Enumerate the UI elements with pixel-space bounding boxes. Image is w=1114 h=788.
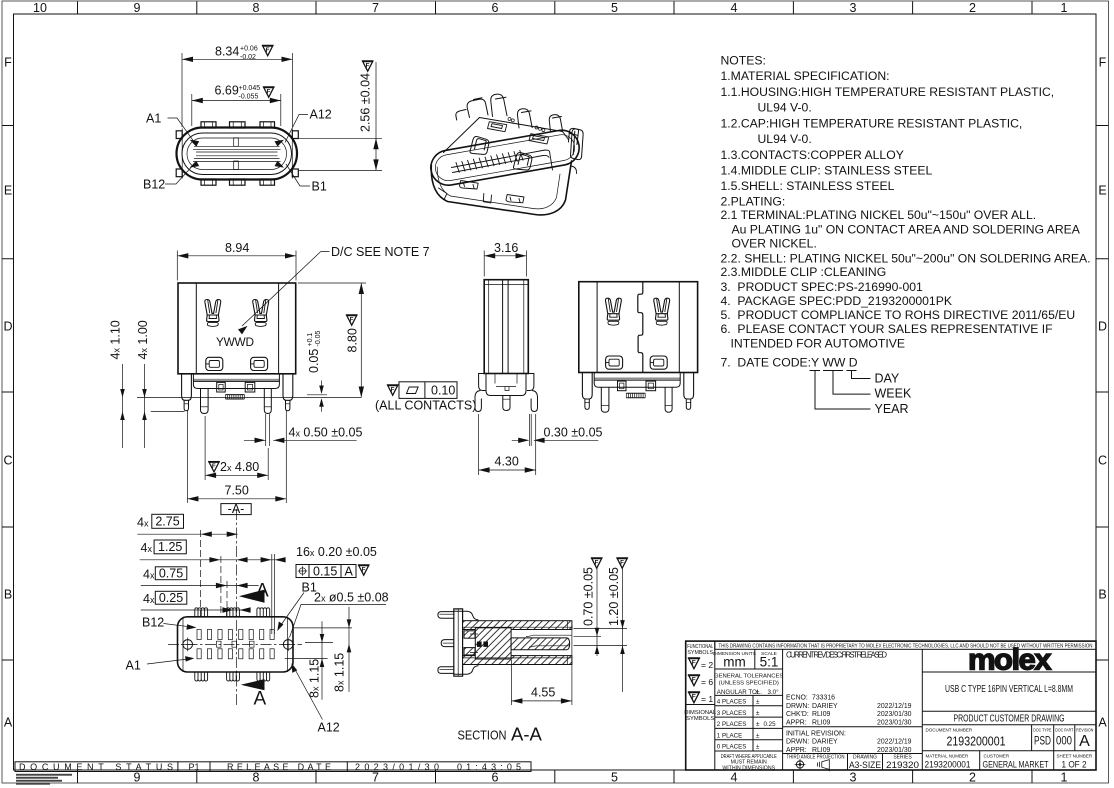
svg-text:7: 7	[372, 1, 379, 15]
svg-text:D: D	[3, 320, 12, 334]
svg-text:A-A: A-A	[511, 724, 543, 745]
section clip hatched bits	[464, 631, 475, 638]
svg-text:1.1.HOUSING:HIGH TEMPERATURE R: 1.1.HOUSING:HIGH TEMPERATURE RESISTANT P…	[721, 85, 1055, 99]
svg-text:4.55: 4.55	[531, 685, 555, 699]
svg-text:5: 5	[611, 1, 618, 15]
svg-text:8: 8	[253, 1, 260, 15]
svg-text:733316: 733316	[812, 695, 835, 702]
dim 7.50	[187, 410, 286, 503]
latch claw right	[253, 300, 269, 327]
svg-text:5:1: 5:1	[760, 655, 779, 670]
iso right side bump	[571, 166, 577, 174]
svg-text:5. PRODUCT COMPLIANCE TO ROHS: 5. PRODUCT COMPLIANCE TO ROHS DIRECTIVE …	[721, 308, 1076, 322]
rear solder legs	[582, 373, 693, 413]
svg-text:8x 1.15: 8x 1.15	[308, 659, 322, 698]
grid letters right	[1098, 56, 1107, 730]
solder legs	[182, 374, 293, 414]
svg-text:WITHIN DIMENSIONS: WITHIN DIMENSIONS	[722, 765, 775, 771]
svg-text:3. PRODUCT SPEC:PS-216990-001: 3. PRODUCT SPEC:PS-216990-001	[721, 280, 924, 294]
section top wall hatched	[463, 621, 572, 630]
svg-text:2.75: 2.75	[155, 514, 179, 528]
dim 8.94	[177, 251, 296, 281]
svg-text:1 OF 2: 1 OF 2	[1062, 759, 1087, 770]
svg-text:8.94: 8.94	[225, 241, 249, 255]
section clip plate	[454, 609, 463, 676]
svg-text:MATERIAL NUMBER: MATERIAL NUMBER	[926, 754, 970, 759]
svg-text:9: 9	[134, 1, 141, 15]
svg-text:2 PLACES: 2 PLACES	[717, 721, 747, 728]
svg-text:A12: A12	[318, 721, 340, 735]
svg-text:DAY: DAY	[875, 371, 900, 385]
svg-text:±: ±	[756, 689, 760, 696]
svg-text:F: F	[4, 56, 12, 70]
svg-text:UL94 V-0.: UL94 V-0.	[758, 132, 812, 146]
svg-text:±: ±	[756, 721, 760, 728]
svg-text:0.10: 0.10	[431, 384, 455, 398]
mounting hole left	[183, 640, 193, 650]
svg-text:1.4.MIDDLE CLIP: STAINLESS STE: 1.4.MIDDLE CLIP: STAINLESS STEEL	[721, 164, 933, 178]
svg-text:7: 7	[372, 771, 379, 785]
svg-text:4.30: 4.30	[495, 454, 519, 468]
svg-text:INITIAL REVISION:: INITIAL REVISION:	[786, 730, 846, 737]
centerlines	[168, 643, 302, 645]
svg-text:INTENDED FOR AUTOMOTIVE: INTENDED FOR AUTOMOTIVE	[731, 337, 905, 351]
svg-text:OVER NICKEL.: OVER NICKEL.	[732, 237, 817, 251]
shell innermost ring	[187, 138, 287, 170]
latch claw left	[205, 300, 221, 327]
iso tall tab	[491, 94, 507, 116]
svg-text:4x 1.10: 4x 1.10	[109, 320, 123, 359]
dim 4.55	[511, 625, 572, 705]
svg-text:3: 3	[850, 771, 857, 785]
mounting hole right	[283, 640, 293, 650]
svg-text:7.50: 7.50	[225, 483, 249, 497]
grid letters left	[3, 56, 12, 730]
side corner tabs	[176, 129, 298, 179]
svg-text:FUNCTIONAL: FUNCTIONAL	[687, 644, 713, 650]
svg-text:A: A	[345, 565, 354, 579]
middle column	[921, 649, 923, 770]
svg-text:DRWN:: DRWN:	[786, 739, 809, 746]
svg-text:ECNO:: ECNO:	[786, 695, 808, 702]
svg-text:Au PLATING 1u" ON CONTACT AREA: Au PLATING 1u" ON CONTACT AREA AND SOLDE…	[732, 222, 1081, 236]
svg-text:RLI09: RLI09	[812, 747, 831, 754]
svg-text:3.0°: 3.0°	[768, 689, 780, 696]
svg-text:+0.06: +0.06	[240, 46, 258, 53]
svg-text:-A-: -A-	[228, 502, 245, 516]
svg-text:A3-SIZE: A3-SIZE	[849, 760, 881, 770]
svg-text:0.75: 0.75	[159, 567, 183, 581]
svg-text:4x: 4x	[141, 541, 153, 555]
iso front pill face	[428, 127, 582, 188]
svg-text:±: ±	[756, 744, 760, 751]
svg-text:(UNLESS SPECIFIED): (UNLESS SPECIFIED)	[719, 681, 779, 687]
svg-text:000: 000	[1056, 736, 1072, 748]
svg-text:D/C SEE NOTE 7: D/C SEE NOTE 7	[331, 245, 430, 259]
center notch marks	[234, 138, 239, 147]
svg-text:DOC PART: DOC PART	[1055, 728, 1073, 733]
svg-text:2193200001: 2193200001	[925, 759, 971, 770]
svg-text:SYMBOLS: SYMBOLS	[686, 716, 714, 722]
tolerance column	[782, 649, 784, 770]
bottom pin combs	[195, 672, 208, 681]
iso left corner notch	[439, 188, 448, 200]
dim 0.70	[574, 629, 628, 646]
tongue contact lines	[193, 146, 281, 161]
svg-text:2023/01/30: 2023/01/30	[877, 747, 912, 754]
iso wall small tabs	[460, 181, 479, 190]
svg-text:E: E	[4, 184, 12, 198]
contact pads row B	[197, 630, 274, 640]
pin tip line	[151, 411, 185, 413]
section tongue hatched	[511, 638, 570, 650]
svg-text:C: C	[1098, 454, 1107, 468]
svg-text:molex: molex	[968, 644, 1052, 677]
svg-text:B: B	[1098, 588, 1106, 602]
svg-text:3: 3	[850, 1, 857, 15]
svg-text:USB C TYPE 16PIN VERTICAL L=8.: USB C TYPE 16PIN VERTICAL L=8.8MM	[945, 684, 1073, 695]
svg-text:1.MATERIAL SPECIFICATION:: 1.MATERIAL SPECIFICATION:	[721, 69, 890, 83]
svg-text:6: 6	[492, 771, 499, 785]
dim 1.20	[622, 569, 624, 693]
svg-text:DOC TYPE: DOC TYPE	[1033, 728, 1051, 733]
dim 4.30	[479, 414, 536, 475]
svg-text:SYMBOLS: SYMBOLS	[687, 650, 713, 656]
svg-text:4x: 4x	[137, 516, 149, 530]
svg-text:2x 4.80: 2x 4.80	[220, 460, 259, 474]
svg-text:A: A	[1098, 716, 1107, 730]
svg-text:2193200001: 2193200001	[947, 733, 1006, 748]
svg-text:PSD: PSD	[1034, 736, 1051, 748]
date code callout	[810, 371, 912, 417]
iso far-right hook	[569, 128, 579, 144]
iso top latch left	[470, 136, 489, 154]
svg-text:+0.045: +0.045	[239, 85, 261, 92]
svg-text:CURRENT REV DESC: FIRST RELEAS: CURRENT REV DESC: FIRST RELEASED	[786, 650, 887, 659]
contact pads row A	[197, 649, 274, 659]
svg-text:-0.05: -0.05	[315, 330, 322, 346]
bottom shell tabs	[201, 179, 275, 185]
svg-text:4 PLACES: 4 PLACES	[717, 699, 747, 706]
dim 8.34	[182, 53, 293, 127]
side base	[479, 374, 534, 391]
section middle clip marks	[477, 642, 482, 647]
iso center tab	[517, 109, 532, 128]
svg-text:PRODUCT CUSTOMER DRAWING: PRODUCT CUSTOMER DRAWING	[954, 714, 1065, 725]
document status bar	[15, 762, 531, 772]
svg-text:mm: mm	[723, 655, 746, 670]
rear lower latches	[606, 356, 623, 369]
svg-text:16x 0.20 ±0.05: 16x 0.20 ±0.05	[296, 545, 377, 559]
svg-text:7. DATE CODE:Y WW D: 7. DATE CODE:Y WW D	[721, 355, 858, 369]
iso contact comb	[456, 150, 523, 172]
svg-text:5: 5	[611, 771, 618, 785]
grid numbers bottom	[134, 771, 1068, 785]
svg-text:GENERAL TOLERANCES: GENERAL TOLERANCES	[714, 674, 783, 680]
svg-text:= 2: = 2	[701, 660, 713, 670]
datum -A-	[221, 504, 251, 515]
iso top slot rects	[488, 122, 507, 132]
svg-text:A1: A1	[126, 659, 141, 673]
bottom body outline	[178, 617, 294, 672]
section bracket left pins	[438, 612, 455, 674]
svg-text:8x 1.15: 8x 1.15	[333, 653, 347, 692]
svg-text:4: 4	[731, 1, 738, 15]
svg-text:2.PLATING:: 2.PLATING:	[721, 195, 786, 209]
dim 2x4.80	[205, 416, 268, 480]
svg-text:B1: B1	[312, 180, 327, 194]
svg-text:4x 0.50 ±0.05: 4x 0.50 ±0.05	[289, 426, 363, 440]
svg-text:C: C	[3, 454, 12, 468]
svg-text:2x ø0.5 ±0.08: 2x ø0.5 ±0.08	[314, 591, 389, 605]
rear body	[579, 282, 698, 373]
svg-text:SHEET NUMBER: SHEET NUMBER	[1057, 754, 1093, 759]
seating plane line	[137, 397, 361, 399]
svg-text:0.30 ±0.05: 0.30 ±0.05	[544, 426, 603, 440]
svg-text:0.25: 0.25	[159, 591, 183, 605]
svg-text:GENERAL MARKET: GENERAL MARKET	[983, 759, 1049, 770]
svg-text:-0.055: -0.055	[239, 94, 259, 101]
iso shell side wall	[431, 161, 571, 215]
svg-text:A12: A12	[310, 108, 332, 122]
svg-text:4x: 4x	[143, 568, 155, 582]
svg-text:6: 6	[492, 1, 499, 15]
svg-text:E: E	[1098, 184, 1106, 198]
svg-text:4x: 4x	[143, 592, 155, 606]
svg-text:0.05: 0.05	[307, 349, 321, 373]
section bottom wall hatched	[463, 656, 572, 665]
svg-text:B12: B12	[143, 178, 165, 192]
svg-text:±: ±	[756, 732, 760, 739]
section contact beams	[526, 635, 572, 647]
svg-text:D: D	[1098, 320, 1107, 334]
svg-text:2.3.MIDDLE CLIP :CLEANING: 2.3.MIDDLE CLIP :CLEANING	[721, 265, 887, 279]
svg-text:F: F	[1099, 56, 1107, 70]
svg-text:2: 2	[969, 771, 976, 785]
svg-text:8.34: 8.34	[215, 45, 239, 59]
svg-text:WEEK: WEEK	[875, 387, 912, 401]
svg-text:4. PACKAGE SPEC:PDD_219320000: 4. PACKAGE SPEC:PDD_2193200001PK	[721, 294, 952, 308]
dim 0.05 tol vertical	[307, 330, 322, 373]
shell outer pill	[177, 128, 298, 180]
svg-text:9: 9	[134, 771, 141, 785]
svg-text:2.1 TERMINAL:PLATING NICKEL 50: 2.1 TERMINAL:PLATING NICKEL 50u"~150u" O…	[721, 208, 1037, 222]
svg-text:2.56 ±0.04: 2.56 ±0.04	[359, 73, 373, 132]
svg-text:= 1: = 1	[701, 694, 713, 704]
svg-text:DARIEY: DARIEY	[812, 703, 838, 710]
svg-text:YWWD: YWWD	[216, 335, 254, 349]
right column: molex logo	[922, 671, 1096, 673]
leader D/C SEE NOTE 7	[242, 252, 330, 327]
dim 3.16	[484, 251, 526, 277]
row ticks left band	[2, 126, 14, 661]
svg-text:1.2.CAP:HIGH TEMPERATURE RESIS: 1.2.CAP:HIGH TEMPERATURE RESISTANT PLAST…	[721, 116, 1023, 130]
grid numbers top	[33, 1, 1067, 15]
svg-text:2023/01/30: 2023/01/30	[877, 711, 912, 718]
dashed pin column lines	[200, 530, 227, 617]
section line arrows A-A	[239, 590, 265, 603]
middle slots	[217, 641, 255, 647]
svg-text:DIMSIONAL: DIMSIONAL	[684, 710, 717, 716]
svg-text:2022/12/19: 2022/12/19	[877, 739, 912, 746]
dim 6.69	[192, 94, 281, 126]
svg-text:1.3.CONTACTS:COPPER ALLOY: 1.3.CONTACTS:COPPER ALLOY	[721, 148, 904, 162]
cap seam	[638, 282, 643, 373]
svg-text:APPR:: APPR:	[786, 719, 807, 726]
svg-text:THIRD ANGLE PROJECTION: THIRD ANGLE PROJECTION	[787, 755, 845, 761]
svg-text:8.80: 8.80	[346, 328, 360, 352]
side body	[484, 280, 528, 374]
svg-text:-0.02: -0.02	[240, 54, 256, 61]
svg-text:0.25: 0.25	[764, 721, 777, 728]
svg-text:3.16: 3.16	[494, 241, 518, 255]
svg-text:2.2. SHELL: PLATING NICKEL 50u: 2.2. SHELL: PLATING NICKEL 50u"~200u" ON…	[721, 252, 1091, 266]
lower latch right	[251, 357, 268, 370]
functional symbols column	[714, 641, 716, 770]
svg-text:A: A	[1079, 733, 1090, 750]
svg-text:0.15: 0.15	[313, 565, 337, 579]
svg-text:8: 8	[253, 771, 260, 785]
svg-text:DRWN:: DRWN:	[786, 703, 809, 710]
svg-text:±: ±	[756, 699, 760, 706]
section rear housing block hatched	[475, 628, 511, 659]
svg-text:6. PLEASE CONTACT YOUR SALES: 6. PLEASE CONTACT YOUR SALES REPRESENTAT…	[721, 322, 1053, 336]
svg-text:SECTION: SECTION	[458, 728, 507, 743]
svg-text:A: A	[254, 689, 267, 710]
svg-text:DOCUMENT NUMBER: DOCUMENT NUMBER	[926, 728, 973, 733]
shell inner ring	[182, 133, 292, 175]
svg-text:A1: A1	[146, 112, 161, 126]
svg-text:1: 1	[1061, 1, 1068, 15]
dim 4x0.50	[266, 414, 270, 446]
svg-text:2: 2	[969, 1, 976, 15]
svg-text:1: 1	[1061, 771, 1068, 785]
svg-text:RLI09: RLI09	[812, 719, 831, 726]
svg-text:= 6: = 6	[701, 677, 713, 687]
svg-text:RELEASE DATE: RELEASE DATE	[227, 762, 331, 772]
svg-text:(ALL CONTACTS): (ALL CONTACTS)	[375, 399, 476, 413]
svg-text:DARIEY: DARIEY	[812, 739, 838, 746]
svg-text:±: ±	[756, 710, 760, 717]
svg-text:CUSTOMER: CUSTOMER	[984, 754, 1010, 759]
svg-text:3 PLACES: 3 PLACES	[717, 710, 747, 717]
lower latch left	[206, 357, 223, 370]
svg-text:NOTES:: NOTES:	[721, 53, 766, 67]
dim 8.80 vertical	[298, 283, 366, 398]
svg-text:219320: 219320	[886, 760, 919, 770]
iso rear-left hook tab	[456, 98, 488, 120]
svg-text:0.70 ±0.05: 0.70 ±0.05	[582, 567, 596, 626]
svg-text:REVISION: REVISION	[1076, 728, 1093, 733]
dim lines right 8x1.15	[285, 628, 352, 659]
iso top face edges	[444, 118, 569, 153]
B1 pin edge lines	[272, 554, 275, 634]
svg-text:2023/01/30: 2023/01/30	[877, 719, 912, 726]
svg-text:+0.1: +0.1	[307, 333, 314, 347]
row ticks right band	[1096, 126, 1109, 661]
tiny fine print block	[16, 774, 72, 785]
svg-text:4x 1.00: 4x 1.00	[136, 320, 150, 359]
svg-text:6.69: 6.69	[215, 84, 239, 98]
svg-text:B: B	[4, 588, 12, 602]
svg-text:B12: B12	[142, 616, 164, 630]
svg-text:YEAR: YEAR	[875, 402, 909, 416]
svg-text:A: A	[4, 716, 13, 730]
column ticks top band	[78, 2, 1033, 15]
svg-text:P1: P1	[188, 762, 199, 772]
proprietary banner	[715, 641, 1096, 649]
top shell tabs	[201, 122, 275, 128]
contact pointer triangles	[190, 140, 284, 168]
svg-text:1.20 ±0.05: 1.20 ±0.05	[607, 567, 621, 626]
iso right end block	[570, 129, 583, 160]
svg-text:A: A	[256, 581, 269, 602]
iso top latch right	[513, 152, 531, 170]
svg-text:RLI09: RLI09	[812, 711, 831, 718]
svg-text:1 PLACE: 1 PLACE	[717, 732, 742, 739]
svg-text:APPR:: APPR:	[786, 747, 807, 754]
svg-text:4: 4	[731, 771, 738, 785]
svg-text:1.5.SHELL: STAINLESS STEEL: 1.5.SHELL: STAINLESS STEEL	[721, 179, 895, 193]
section shell inner lines	[463, 621, 572, 665]
svg-text:0 PLACES: 0 PLACES	[717, 744, 747, 751]
iso right tab	[549, 115, 562, 132]
section bracket step hooks	[455, 611, 479, 674]
rear latch claws	[605, 298, 621, 325]
housing body	[178, 283, 296, 374]
svg-text:10: 10	[33, 1, 47, 15]
svg-text:1.25: 1.25	[158, 540, 182, 554]
flatness callout 0.10 ALL CONTACTS	[375, 382, 476, 413]
column ticks bottom band	[78, 770, 1033, 783]
svg-text:CHK'D:: CHK'D:	[786, 711, 809, 718]
svg-text:UL94 V-0.: UL94 V-0.	[758, 101, 812, 115]
top pin combs	[195, 608, 208, 617]
iso ridge dots	[508, 118, 511, 121]
iso tongue strip	[452, 150, 553, 173]
svg-text:2022/12/19: 2022/12/19	[877, 703, 912, 710]
dim 0.30	[529, 414, 531, 446]
dim 2.56 vertical	[299, 138, 382, 170]
